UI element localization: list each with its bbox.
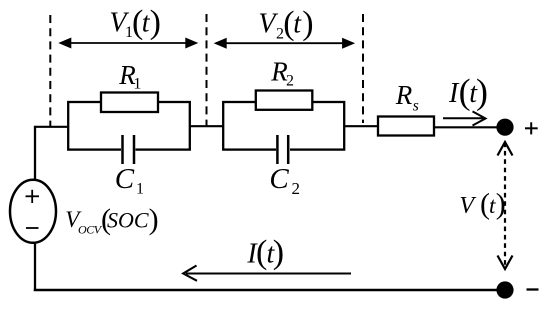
label R2 [270, 57, 294, 90]
svg-text:V: V [459, 193, 476, 219]
svg-text:t: t [293, 8, 302, 39]
svg-text:1: 1 [133, 76, 141, 93]
svg-text:2: 2 [292, 179, 301, 198]
label Rs [395, 80, 419, 114]
resistor R2 [256, 91, 312, 110]
voltage source VOCV [10, 180, 56, 243]
wire: Rs to positive terminal [434, 126, 498, 128]
svg-text:OCV: OCV [78, 223, 103, 237]
svg-text:1: 1 [136, 181, 144, 198]
label V(t) [459, 187, 505, 220]
svg-text:): ) [149, 203, 159, 236]
label C2 [269, 163, 300, 198]
capacitor C2 [276, 135, 290, 164]
node: negative terminal [496, 281, 513, 298]
wire: RC2 to Rs [344, 125, 379, 127]
svg-text:SOC: SOC [107, 208, 149, 233]
wire: source bottom to ground rail [34, 240, 36, 291]
svg-text:): ) [476, 71, 488, 111]
label I(t) top [448, 71, 488, 111]
label V1(t) [109, 4, 161, 41]
dashed boundary line 3 [362, 14, 364, 123]
wire: left vertical from main wire to source [34, 126, 36, 182]
label - (terminal) [527, 288, 539, 290]
label - (source) [26, 227, 39, 229]
wire: RC1 to RC2 [189, 125, 224, 127]
svg-text:C: C [115, 163, 135, 195]
svg-text:C: C [269, 163, 289, 195]
svg-text:2: 2 [286, 72, 294, 89]
label VOCV(SOC) [65, 203, 158, 236]
svg-text:): ) [496, 187, 506, 220]
V2(t) measurement arrow [214, 38, 355, 49]
V(t) measurement dashed arrow [498, 142, 513, 269]
svg-text:s: s [413, 98, 419, 115]
RC1 parallel loop [68, 102, 190, 150]
svg-text:): ) [150, 4, 161, 41]
label + (terminal) [525, 122, 538, 134]
I(t) output current arrow [443, 111, 486, 125]
V1(t) measurement arrow [58, 38, 198, 49]
label C1 [115, 163, 144, 198]
dashed boundary line 1 [49, 15, 51, 126]
svg-text:): ) [302, 5, 313, 42]
label V2(t) [258, 5, 313, 43]
wire: bottom return rail [34, 289, 497, 291]
svg-text:R: R [395, 80, 413, 110]
svg-text:): ) [273, 234, 284, 271]
RC2 parallel loop [223, 102, 344, 150]
resistor Rs [378, 117, 434, 136]
dashed boundary line 2 [206, 14, 208, 126]
I(t) return current arrow [183, 266, 351, 281]
label + (source) [26, 190, 40, 203]
label I(t) bottom [246, 234, 284, 271]
wire: source to RC1 [35, 126, 69, 128]
node: positive terminal [496, 119, 513, 136]
label R1 [118, 60, 141, 93]
resistor R1 [101, 93, 158, 113]
capacitor C1 [121, 135, 136, 164]
